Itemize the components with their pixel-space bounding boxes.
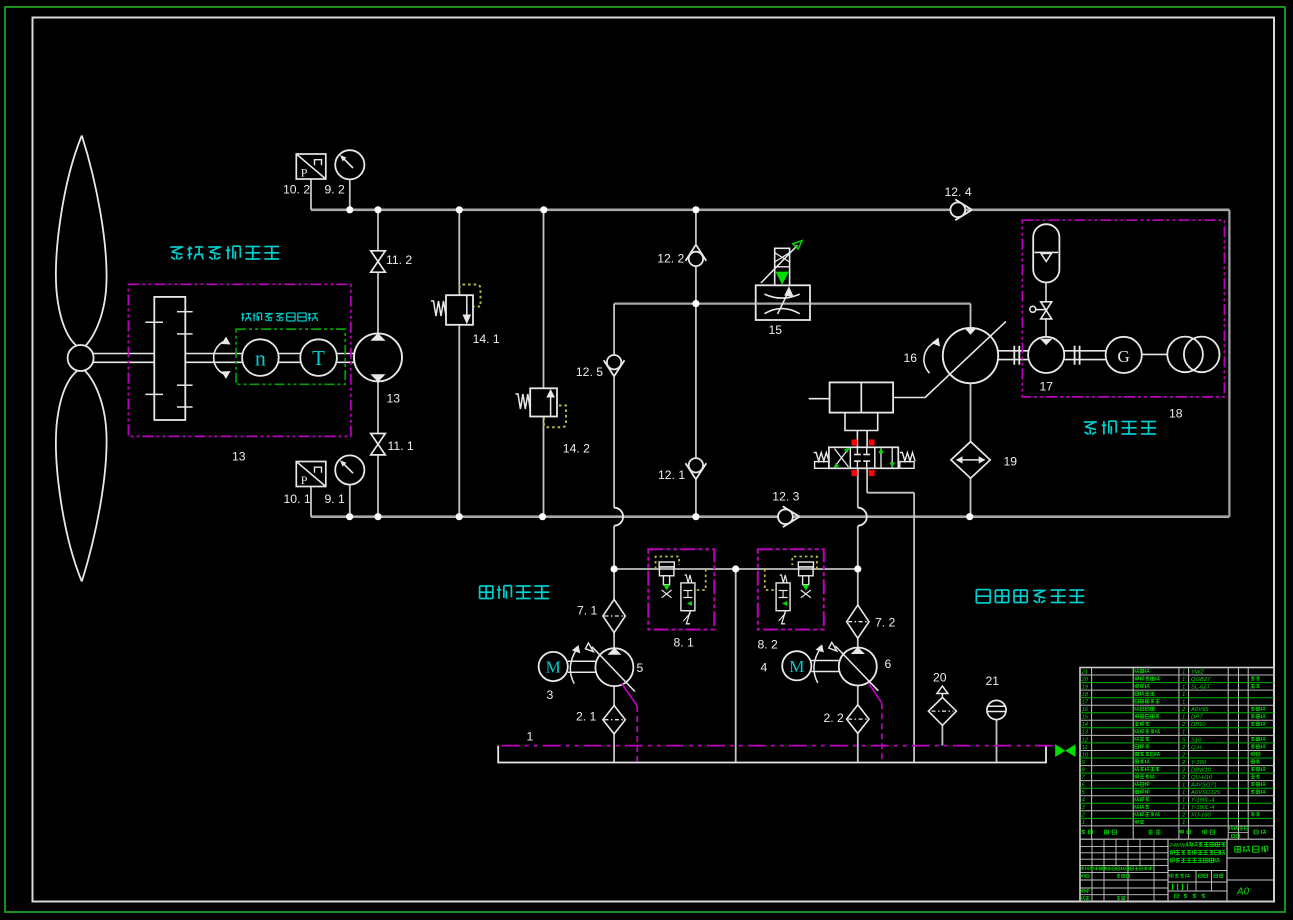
svg-text:12. 2: 12. 2 xyxy=(657,252,684,266)
svg-text:Q.H: Q.H xyxy=(1191,745,1202,751)
svg-text:4: 4 xyxy=(1082,798,1085,804)
svg-text:24KW/: 24KW/ xyxy=(1169,843,1189,849)
svg-text:17: 17 xyxy=(1040,380,1054,394)
svg-text:1: 1 xyxy=(1182,692,1185,698)
svg-text:7. 1: 7. 1 xyxy=(577,604,598,618)
svg-text:2. 1: 2. 1 xyxy=(576,710,597,724)
svg-text:A6V55: A6V55 xyxy=(1190,707,1209,713)
svg-text:DRT: DRT xyxy=(1191,715,1203,721)
svg-text:10: 10 xyxy=(1082,752,1089,758)
svg-text:1: 1 xyxy=(1182,805,1185,811)
svg-text:15: 15 xyxy=(769,323,783,337)
svg-text:1: 1 xyxy=(1182,700,1185,706)
svg-text:n: n xyxy=(255,346,266,371)
svg-text:8. 1: 8. 1 xyxy=(674,636,695,650)
svg-text:5: 5 xyxy=(637,661,644,675)
svg-text:T: T xyxy=(312,346,325,370)
svg-text:M: M xyxy=(789,657,804,676)
svg-text:DBW10: DBW10 xyxy=(1191,767,1212,773)
svg-text:4: 4 xyxy=(761,661,768,675)
svg-text:10. 2: 10. 2 xyxy=(283,183,310,197)
svg-text:DB10: DB10 xyxy=(1191,722,1206,728)
svg-text:10. 1: 10. 1 xyxy=(284,492,311,506)
svg-text:A4VSO71: A4VSO71 xyxy=(1190,783,1217,789)
svg-text:12. 3: 12. 3 xyxy=(772,490,799,504)
svg-text:18: 18 xyxy=(1082,692,1089,698)
svg-text:1: 1 xyxy=(1182,820,1185,826)
svg-text:12. 5: 12. 5 xyxy=(576,365,603,379)
svg-text:6: 6 xyxy=(885,657,892,671)
svg-text:1: 1 xyxy=(1182,798,1185,804)
svg-text:12. 1: 12. 1 xyxy=(658,468,685,482)
svg-text:S10: S10 xyxy=(1191,737,1202,743)
svg-text:16: 16 xyxy=(1082,707,1089,713)
svg-text:1: 1 xyxy=(1182,790,1185,796)
svg-text:1: 1 xyxy=(1182,677,1185,683)
svg-text:P: P xyxy=(301,473,308,487)
svg-text:SL-62T: SL-62T xyxy=(1191,685,1210,691)
svg-text:A6VSO125: A6VSO125 xyxy=(1190,790,1221,796)
svg-text:3: 3 xyxy=(547,688,554,702)
svg-text:13: 13 xyxy=(387,392,401,406)
svg-text:12. 4: 12. 4 xyxy=(945,185,972,199)
svg-text:A0: A0 xyxy=(1236,887,1250,898)
svg-text:19: 19 xyxy=(1004,455,1018,469)
svg-text:16: 16 xyxy=(904,351,918,365)
svg-text:15: 15 xyxy=(1082,715,1089,721)
svg-text:21: 21 xyxy=(986,674,1000,688)
svg-text:19: 19 xyxy=(1082,685,1089,691)
svg-text:8. 2: 8. 2 xyxy=(758,638,779,652)
svg-text:13: 13 xyxy=(1082,730,1089,736)
svg-text:XU-160: XU-160 xyxy=(1190,813,1211,819)
svg-text:Y-180L-4: Y-180L-4 xyxy=(1191,805,1214,811)
svg-text:20: 20 xyxy=(1081,677,1089,683)
svg-text:17: 17 xyxy=(1082,700,1089,706)
svg-text:QU-H10: QU-H10 xyxy=(1191,775,1213,781)
svg-text:11: 11 xyxy=(1082,745,1088,751)
svg-text:1: 1 xyxy=(1182,685,1185,691)
svg-text:12: 12 xyxy=(1082,737,1089,743)
svg-text:18: 18 xyxy=(1169,407,1183,421)
svg-text:14. 1: 14. 1 xyxy=(473,332,500,346)
svg-text:14: 14 xyxy=(1082,722,1088,728)
svg-text:21: 21 xyxy=(1081,669,1088,675)
svg-text:20: 20 xyxy=(933,671,947,685)
svg-text:9. 1: 9. 1 xyxy=(325,492,346,506)
svg-text:1: 1 xyxy=(1182,669,1185,675)
svg-text:YWZ: YWZ xyxy=(1191,669,1204,675)
svg-text:P: P xyxy=(301,166,308,180)
svg-text:1: 1 xyxy=(1182,730,1185,736)
svg-text:1: 1 xyxy=(1182,715,1185,721)
svg-text:9. 2: 9. 2 xyxy=(325,183,346,197)
svg-text:1: 1 xyxy=(1182,783,1185,789)
svg-text:11. 1: 11. 1 xyxy=(388,439,414,453)
svg-text:11. 2: 11. 2 xyxy=(386,253,412,267)
svg-text:Y-180L-4: Y-180L-4 xyxy=(1191,798,1214,804)
svg-text:M: M xyxy=(546,658,561,677)
svg-text:13: 13 xyxy=(232,450,246,464)
svg-text:1: 1 xyxy=(527,730,534,744)
svg-text:G: G xyxy=(1118,347,1130,366)
svg-text:2. 2: 2. 2 xyxy=(824,711,845,725)
svg-text:1: 1 xyxy=(1082,820,1085,826)
svg-text:14. 2: 14. 2 xyxy=(563,442,590,456)
svg-text:7. 2: 7. 2 xyxy=(875,616,896,630)
svg-text:Y-100: Y-100 xyxy=(1191,760,1207,766)
svg-text:QGB27: QGB27 xyxy=(1191,677,1211,683)
